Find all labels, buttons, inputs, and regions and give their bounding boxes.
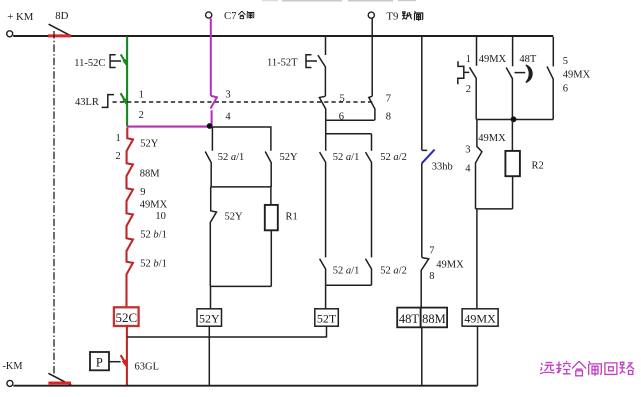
svg-text:52 a/1: 52 a/1 [333,152,360,163]
svg-text:7: 7 [429,246,434,257]
separator dash-dot panel line [53,31,55,377]
meter P [90,352,121,370]
svg-text:52 b/1: 52 b/1 [140,258,167,269]
wire magenta C7 branch [210,18,212,96]
wire 52Y coil to bottom bus [208,326,210,385]
svg-text:49MX: 49MX [140,200,168,211]
svg-text:8: 8 [429,271,434,282]
contact 49MX 7-8 [421,246,464,308]
svg-text:P: P [96,356,103,370]
svg-text:8: 8 [386,112,391,123]
contact 43LR 5-6 [319,94,344,123]
wire node A to 52Y parallel branch [211,127,271,151]
wire join below R2 [476,209,513,309]
svg-text:43LR: 43LR [75,97,99,108]
svg-text:88M: 88M [140,169,161,180]
svg-text:-KM: -KM [3,361,23,372]
svg-text:3: 3 [225,90,230,101]
svg-text:C7: C7 [224,10,237,22]
contact 49MX 1-2 with lever [458,37,507,120]
svg-text:1: 1 [139,90,144,101]
wire 48T/88M to bottom bus [421,327,423,385]
coil-chain 52C series contacts (red highlighted) [116,128,168,308]
contact 52a/1 (52T branch lower) [320,259,360,285]
wire interconnect bottom of coils [127,336,326,338]
title 远控合闸回路 (magenta) [540,361,634,376]
svg-text:+ KM: + KM [7,11,34,23]
svg-text:7: 7 [386,94,391,105]
coil 48T [397,308,421,328]
svg-text:52 a/1: 52 a/1 [333,266,360,277]
coil 52C (red box) [114,307,139,326]
wire bottom join 52Y branch [210,286,271,308]
connector 11-52T [267,55,317,69]
svg-text:49MX: 49MX [479,54,507,65]
svg-text:52C: 52C [115,310,137,325]
contact 52a/1 (52Y branch left) [205,152,244,188]
contact 49MX 3-4 [465,120,506,209]
svg-text:8D: 8D [55,10,68,22]
contact 43LR 7-8 [369,94,391,123]
cropped text fragment at top edge [262,0,416,2]
svg-text:3: 3 [465,145,470,156]
wire top bus [13,35,553,37]
contact 43LR 3-4 (magenta) [211,90,232,126]
coil 49MX [462,309,498,326]
terminal T9 (tripping) [368,11,398,23]
contact 48T timer [506,37,537,120]
wire 48T/88M column from bus [422,37,427,150]
svg-text:52 a/1: 52 a/1 [218,152,245,163]
svg-text:1: 1 [466,54,471,65]
switch 8D return (bottom) [48,373,72,385]
svg-text:88M: 88M [422,312,446,326]
contact 63GL (red arrow) [121,355,159,372]
svg-text:5: 5 [563,56,568,67]
svg-text:52T: 52T [317,311,337,325]
contact 52a/2 (52T branch lower) [366,259,407,285]
node A junction dot [207,123,213,129]
svg-text:4: 4 [225,111,231,122]
svg-text:48T: 48T [399,312,420,326]
contact 52a/1 (52T branch upper) [320,152,360,257]
svg-text:52Y: 52Y [280,152,299,163]
svg-text:6: 6 [563,84,568,95]
svg-text:49MX: 49MX [464,311,496,325]
label 合闸 after C7 [238,11,253,19]
contact 52Y (52Y branch right) [265,152,298,188]
svg-text:52Y: 52Y [199,311,220,325]
wire join 52T branch bottom [326,285,372,309]
svg-text:R2: R2 [532,161,544,172]
svg-text:9: 9 [140,187,145,198]
wire mid join 52Y branch [211,186,271,188]
svg-text:49MX: 49MX [563,70,591,81]
svg-text:52Y: 52Y [140,139,159,150]
wire 52T coil to interconnect [326,326,328,337]
wire magenta horizontal to node A [127,126,210,128]
wire join below 43LR 5-8 [326,120,375,150]
svg-text:4: 4 [465,164,471,175]
svg-text:2: 2 [139,110,144,121]
connector 11-52C [74,55,121,69]
wire join 49MX branches [477,119,553,121]
contact 52Y b (lower) [210,187,243,287]
svg-text:1: 1 [116,133,121,144]
label 跳闸 after T9 [402,11,423,21]
terminal +KM [7,11,34,37]
svg-text:48T: 48T [519,54,537,65]
svg-text:11-52T: 11-52T [267,58,298,69]
resistor R1 [265,187,298,287]
wire green highlighted branch (bus to node) [126,37,128,127]
coil 52Y [197,309,222,326]
contact 43LR 1-2 (green arrow) [121,90,144,121]
svg-text:11-52C: 11-52C [74,58,105,69]
terminal -KM [3,361,23,386]
svg-text:2: 2 [466,84,471,95]
svg-text:10: 10 [155,211,166,222]
svg-text:52Y: 52Y [225,212,244,223]
svg-text:52 a/2: 52 a/2 [380,266,407,277]
svg-text:52 b/1: 52 b/1 [140,229,167,240]
dashed mechanical linkage line 43LR [113,101,375,103]
contact 49MX 5-6 [547,37,591,120]
switch 43LR linkage bracket [75,95,114,108]
switch 8D [48,10,71,36]
coil 52T [315,309,339,326]
resistor R2 [505,120,543,209]
contact 11-52C blade (green arrow) [121,54,127,67]
svg-text:49MX: 49MX [478,133,506,144]
contact 33hb (blue blade) [422,150,453,173]
coil 88M [421,308,447,328]
svg-text:52 a/2: 52 a/2 [380,152,407,163]
contact 52a/2 (52T branch upper) [366,152,407,257]
wire below 33hb [421,163,423,257]
wire red below 52C to bus [126,326,128,385]
contact 11-52T blade [318,37,326,96]
svg-text:5: 5 [340,94,345,105]
terminal C7 (closing) [206,10,238,22]
wire T9 branch down [371,18,373,96]
svg-text:33hb: 33hb [432,162,453,173]
wire bottom bus [13,385,477,387]
svg-text:2: 2 [116,151,121,162]
svg-text:49MX: 49MX [436,260,464,271]
svg-text:63GL: 63GL [135,362,160,373]
svg-text:T9: T9 [386,11,398,23]
wire 49MX coil to bottom bus [477,326,479,386]
node B junction dot [511,116,517,122]
svg-text:R1: R1 [286,212,298,223]
